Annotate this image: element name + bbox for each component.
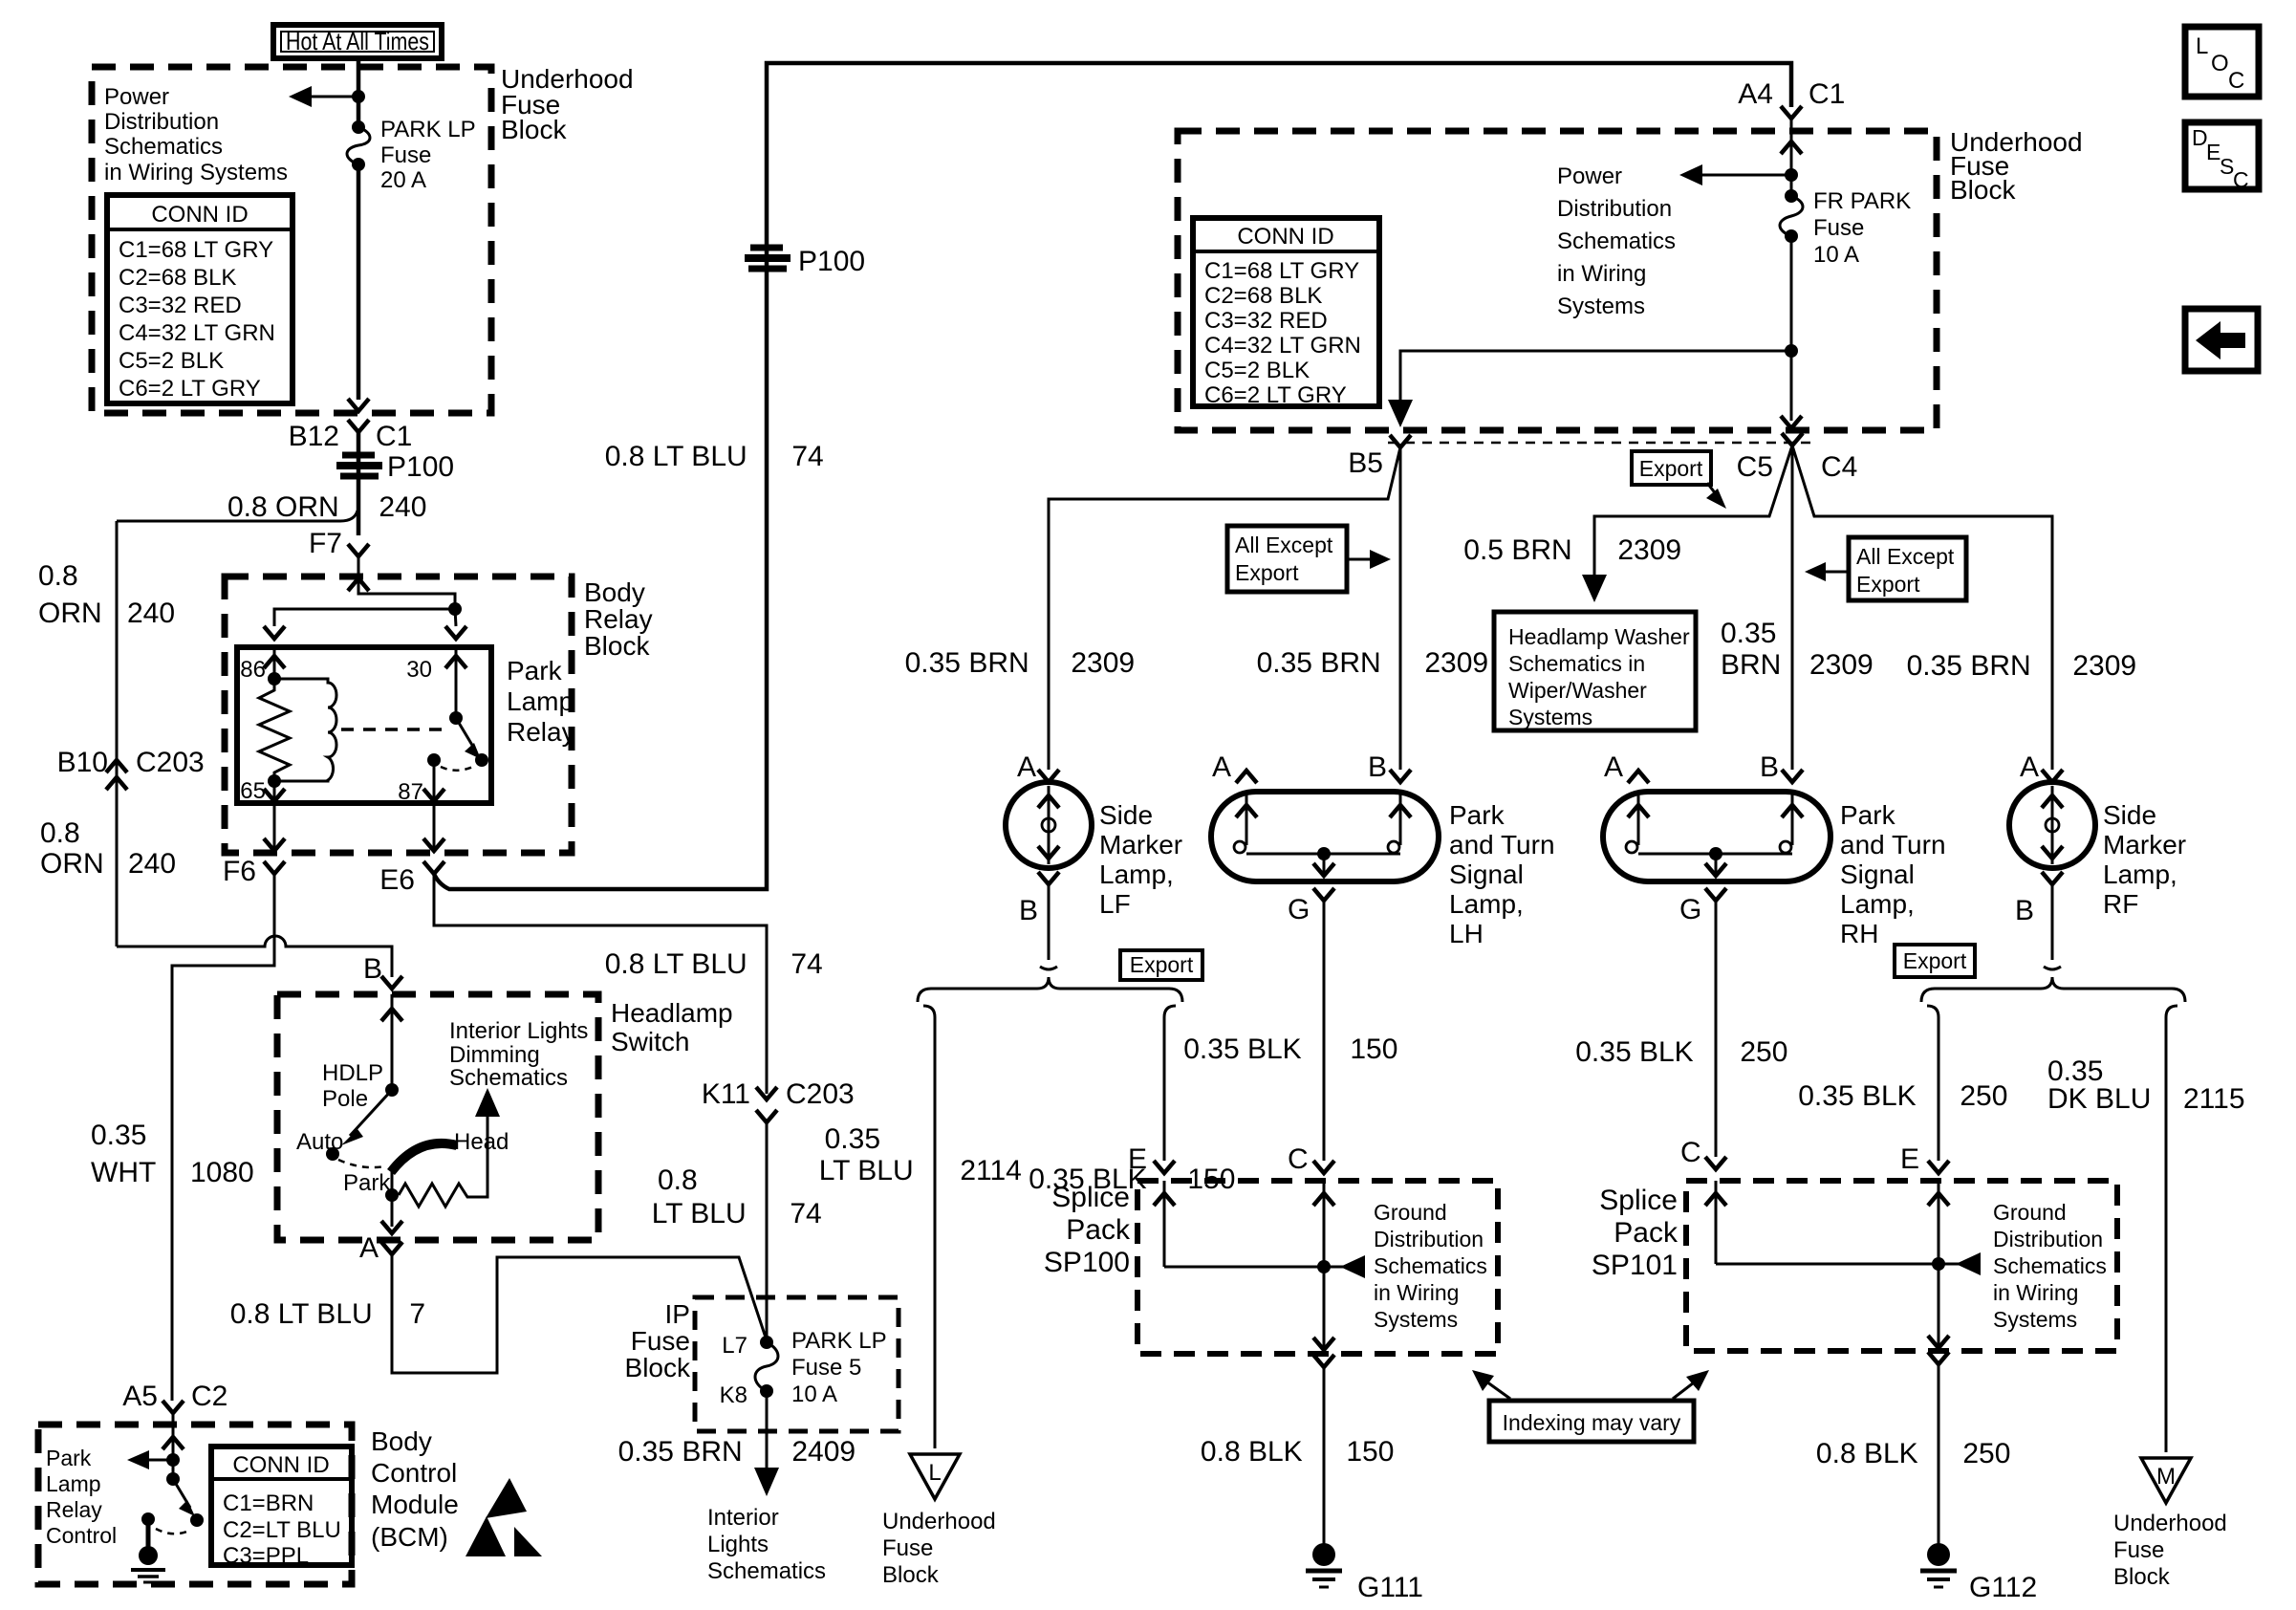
- switch arm to Auto: [350, 1090, 392, 1136]
- svg-text:C1=BRN: C1=BRN: [223, 1490, 314, 1516]
- back arrow box: [2185, 309, 2258, 371]
- svg-text:Schematics: Schematics: [1374, 1253, 1487, 1278]
- ground G112: [1920, 1543, 2037, 1603]
- wire C5/C4 down to RH park lamp B: [1791, 446, 1794, 770]
- SP101 internal bus: [1715, 1181, 1718, 1264]
- wire A to IP fuse block: [392, 1254, 767, 1373]
- brace export split (RF): [1921, 977, 2185, 1002]
- svg-text:Lamp,: Lamp,: [1840, 889, 1915, 919]
- svg-text:G112: G112: [1969, 1572, 2037, 1603]
- wire SP101 to G112: [1928, 1352, 1949, 1364]
- svg-text:74: 74: [782, 1198, 822, 1229]
- SP100 internal bus: [1163, 1181, 1166, 1267]
- svg-text:2309: 2309: [1417, 647, 1488, 679]
- svg-text:0.8 BLK: 0.8 BLK: [1201, 1436, 1310, 1468]
- svg-text:O: O: [2211, 51, 2229, 76]
- lamp Park and Turn Signal Lamp RH: [1603, 751, 1946, 948]
- relay resistor: [259, 679, 290, 781]
- wire fuse output down to box edge: [357, 164, 361, 400]
- CONN ID table (Underhood right): [1193, 218, 1379, 408]
- svg-text:Pack: Pack: [1614, 1217, 1679, 1249]
- wire B5 branch to LF side marker: [1049, 447, 1400, 770]
- DESC box: [2185, 122, 2259, 192]
- svg-text:0.8: 0.8: [38, 560, 78, 592]
- grommet P100 (middle): [745, 246, 865, 277]
- wire RF B down to export brace: [2051, 884, 2054, 960]
- svg-text:in Wiring: in Wiring: [1993, 1280, 2078, 1305]
- svg-text:G: G: [1288, 894, 1310, 925]
- svg-text:G111: G111: [1357, 1572, 1423, 1603]
- svg-text:Ground: Ground: [1993, 1200, 2067, 1225]
- svg-text:E: E: [1900, 1143, 1919, 1175]
- svg-text:B5: B5: [1348, 447, 1383, 479]
- relay Park Lamp Relay box: [237, 647, 491, 803]
- svg-text:Interior: Interior: [707, 1505, 779, 1531]
- svg-text:Control: Control: [371, 1458, 457, 1488]
- node Park contact: [385, 1188, 399, 1202]
- wire to relay pins 86 and 30: [358, 593, 455, 609]
- dashed arc BCM switch: [156, 1529, 191, 1534]
- svg-text:Indexing may vary: Indexing may vary: [1503, 1410, 1681, 1435]
- svg-text:A: A: [1604, 751, 1623, 783]
- svg-text:Distribution: Distribution: [1374, 1227, 1484, 1251]
- triangle ref L (Underhood Fuse Block): [882, 1454, 996, 1588]
- svg-text:C3=32 RED: C3=32 RED: [119, 293, 242, 318]
- svg-text:86: 86: [240, 657, 266, 683]
- svg-text:ORN: ORN: [40, 848, 104, 880]
- svg-text:Export: Export: [1639, 456, 1703, 481]
- ground G111: [1306, 1543, 1423, 1603]
- wire SP100 to G111: [1313, 1355, 1334, 1367]
- Export box (LF): [1120, 950, 1202, 980]
- wire LH G down to SP100 C: [1323, 901, 1326, 1161]
- svg-text:Body: Body: [584, 577, 645, 607]
- svg-text:Ground: Ground: [1374, 1200, 1447, 1225]
- svg-text:in Wiring: in Wiring: [1557, 261, 1646, 287]
- svg-text:0.35 BLK: 0.35 BLK: [1575, 1036, 1701, 1068]
- svg-text:C6=2 LT GRY: C6=2 LT GRY: [1204, 382, 1347, 408]
- svg-text:Lamp: Lamp: [46, 1471, 101, 1496]
- svg-text:ORN: ORN: [38, 598, 102, 629]
- svg-text:All Except: All Except: [1856, 544, 1955, 569]
- E6 wire up through P100 to A4: [434, 63, 1791, 889]
- svg-text:Distribution: Distribution: [1993, 1227, 2103, 1251]
- relay coil: [274, 679, 336, 781]
- wire A4 into fuse block: [1790, 119, 1793, 196]
- svg-text:240: 240: [127, 598, 175, 629]
- svg-text:2309: 2309: [2065, 650, 2136, 682]
- svg-text:240: 240: [128, 848, 176, 880]
- svg-text:0.8: 0.8: [40, 817, 80, 849]
- Body Relay Block dashed box: [225, 577, 572, 853]
- svg-text:C1: C1: [1809, 78, 1845, 110]
- wire B into switch: [391, 994, 394, 1090]
- svg-text:Distribution: Distribution: [1557, 196, 1672, 222]
- svg-text:10 A: 10 A: [1813, 242, 1859, 268]
- svg-text:0.35 BLK: 0.35 BLK: [1798, 1080, 1924, 1112]
- wire C4 branch to RF side marker: [1792, 446, 2052, 770]
- Headlamp Switch dashed box: [277, 994, 598, 1240]
- svg-text:Relay: Relay: [507, 717, 575, 747]
- svg-text:C: C: [2233, 167, 2249, 192]
- svg-text:Lamp,: Lamp,: [1099, 859, 1174, 889]
- svg-text:0.8 BLK: 0.8 BLK: [1816, 1438, 1926, 1469]
- svg-text:A4: A4: [1738, 78, 1773, 110]
- Splice Pack SP101 dashed box: [1686, 1181, 2117, 1351]
- relay switch arm: [456, 718, 476, 751]
- wire F7 into Body Relay Block: [357, 556, 360, 593]
- svg-text:C5: C5: [1737, 451, 1773, 483]
- svg-text:Block: Block: [501, 115, 567, 144]
- svg-text:Side: Side: [2103, 800, 2156, 830]
- svg-text:C2=LT BLU: C2=LT BLU: [223, 1517, 341, 1543]
- svg-text:Schematics: Schematics: [449, 1065, 568, 1091]
- wire to L ref (2114): [923, 1006, 935, 1448]
- svg-text:2114: 2114: [952, 1155, 1022, 1186]
- svg-text:C4: C4: [1821, 451, 1857, 483]
- svg-text:B: B: [1019, 895, 1038, 926]
- svg-text:C: C: [1680, 1137, 1701, 1168]
- svg-text:Park: Park: [343, 1170, 391, 1196]
- svg-text:0.8 LT BLU: 0.8 LT BLU: [605, 948, 755, 980]
- wire from F7 branch down left side: [116, 521, 119, 946]
- switch wiper thick arc: [391, 1143, 457, 1172]
- svg-text:CONN ID: CONN ID: [232, 1452, 329, 1478]
- svg-text:Fuse: Fuse: [2113, 1537, 2164, 1563]
- svg-text:Splice: Splice: [1599, 1185, 1678, 1216]
- svg-text:Systems: Systems: [1993, 1307, 2077, 1332]
- svg-text:SP101: SP101: [1592, 1250, 1678, 1281]
- svg-text:2409: 2409: [784, 1436, 856, 1468]
- svg-text:Headlamp Washer: Headlamp Washer: [1508, 624, 1690, 649]
- svg-text:in Wiring: in Wiring: [1374, 1280, 1459, 1305]
- wire from Hot At All Times into fuse block: [357, 58, 361, 125]
- wire arrow to Power Distribution reference: [294, 96, 358, 98]
- svg-text:Interior Lights: Interior Lights: [449, 1018, 588, 1044]
- Hot At All Times box: [273, 25, 442, 58]
- svg-text:L: L: [928, 1460, 941, 1486]
- svg-text:Block: Block: [1950, 175, 2016, 205]
- svg-text:Relay: Relay: [584, 604, 653, 634]
- wire B5 down to LH park lamp B: [1399, 447, 1402, 770]
- svg-text:0.8 LT BLU: 0.8 LT BLU: [605, 441, 755, 472]
- svg-text:20 A: 20 A: [380, 167, 426, 193]
- node HDLP pole: [385, 1083, 399, 1097]
- node FR PARK feed junction: [1785, 168, 1798, 182]
- Export box (RF): [1895, 945, 1975, 977]
- svg-text:0.35 BRN: 0.35 BRN: [905, 647, 1037, 679]
- svg-text:Export: Export: [1235, 560, 1299, 585]
- svg-text:Schematics: Schematics: [707, 1558, 826, 1584]
- svg-text:C203: C203: [786, 1078, 855, 1110]
- svg-text:Head: Head: [454, 1129, 509, 1155]
- connector line between B5 and C4: [1388, 442, 1816, 445]
- svg-text:Park: Park: [1840, 800, 1896, 830]
- svg-text:C5=2 BLK: C5=2 BLK: [119, 348, 224, 374]
- dashed arc to Park position: [338, 1160, 385, 1167]
- svg-text:Park: Park: [46, 1446, 92, 1470]
- svg-text:Export: Export: [1856, 572, 1920, 597]
- svg-text:250: 250: [1955, 1438, 2010, 1469]
- svg-text:Hot At All Times: Hot At All Times: [286, 27, 429, 55]
- svg-text:Systems: Systems: [1374, 1307, 1458, 1332]
- svg-text:M: M: [2156, 1464, 2176, 1490]
- svg-text:LT BLU: LT BLU: [652, 1198, 754, 1229]
- svg-text:2309: 2309: [1063, 647, 1135, 679]
- ESD symbol: [486, 1478, 527, 1518]
- Splice Pack SP100 dashed box: [1137, 1181, 1498, 1354]
- connector B10 / C203: [106, 760, 127, 772]
- svg-text:B: B: [363, 953, 382, 985]
- Indexing may vary box: [1472, 1370, 1709, 1442]
- Headlamp Washer Schematics box: [1494, 612, 1696, 730]
- IP Fuse Block dashed box: [695, 1297, 899, 1431]
- svg-text:Power: Power: [104, 84, 169, 110]
- Export box (top): [1632, 451, 1726, 509]
- svg-text:C2=68 BLK: C2=68 BLK: [1204, 283, 1322, 309]
- wire to Interior Lights Dimming reference arrow: [470, 1101, 487, 1197]
- wire LF B down to export brace: [1048, 884, 1051, 960]
- node Auto contact: [326, 1147, 339, 1161]
- svg-text:0.8 ORN: 0.8 ORN: [227, 491, 347, 523]
- svg-text:Underhood: Underhood: [2113, 1511, 2227, 1536]
- svg-text:Lamp: Lamp: [507, 686, 574, 716]
- svg-text:C1: C1: [376, 421, 412, 452]
- svg-text:(BCM): (BCM): [371, 1522, 448, 1552]
- E6 wire down to K11: [434, 874, 767, 1094]
- svg-text:P100: P100: [387, 451, 454, 483]
- svg-text:RH: RH: [1840, 919, 1878, 948]
- svg-text:Marker: Marker: [1099, 830, 1182, 859]
- svg-text:PARK LP: PARK LP: [380, 117, 476, 142]
- svg-text:Signal: Signal: [1840, 859, 1915, 889]
- svg-text:Fuse 5: Fuse 5: [791, 1355, 861, 1381]
- svg-text:B: B: [1760, 751, 1779, 783]
- svg-text:Fuse: Fuse: [380, 142, 431, 168]
- svg-text:Export: Export: [1903, 948, 1967, 973]
- svg-text:Splice: Splice: [1051, 1182, 1130, 1213]
- triangle ref M (Underhood Fuse Block): [2113, 1458, 2227, 1590]
- svg-text:C6=2 LT GRY: C6=2 LT GRY: [119, 376, 261, 402]
- svg-text:LH: LH: [1449, 919, 1484, 948]
- svg-text:All Except: All Except: [1235, 533, 1333, 557]
- svg-text:Block: Block: [625, 1353, 691, 1382]
- brace export split (LF): [918, 977, 1182, 1002]
- svg-text:Underhood: Underhood: [882, 1509, 996, 1534]
- svg-text:LT BLU: LT BLU: [819, 1155, 921, 1186]
- svg-text:250: 250: [1952, 1080, 2007, 1112]
- node park lamp relay control junction: [166, 1453, 180, 1467]
- fuse PARK LP Fuse 5 10 A: [760, 1336, 773, 1349]
- svg-text:2115: 2115: [2183, 1083, 2245, 1115]
- svg-text:Schematics: Schematics: [1557, 228, 1676, 254]
- svg-text:Power: Power: [1557, 163, 1622, 189]
- svg-text:65: 65: [240, 778, 266, 804]
- Underhood Fuse Block (left) dashed box: [92, 67, 491, 413]
- svg-text:Distribution: Distribution: [104, 109, 219, 135]
- wire RH G down to SP101 C: [1715, 901, 1718, 1157]
- svg-text:WHT: WHT: [91, 1157, 156, 1188]
- wire C203 to IP fuse block: [766, 1122, 769, 1340]
- svg-text:0.35: 0.35: [91, 1120, 146, 1151]
- svg-text:Block: Block: [2113, 1564, 2171, 1590]
- wire to SP101 E: [1927, 1006, 1939, 1161]
- wire A out of switch: [381, 1221, 402, 1233]
- wire to SP100 E: [1164, 1006, 1176, 1161]
- svg-text:C5=2 BLK: C5=2 BLK: [1204, 358, 1310, 383]
- connector B12 / C1: [348, 420, 369, 432]
- svg-text:Block: Block: [882, 1562, 940, 1588]
- fuse FR PARK Fuse 10 A: [1785, 189, 1798, 203]
- All Except Export box (left): [1227, 526, 1391, 592]
- svg-text:K11: K11: [702, 1078, 750, 1110]
- svg-text:C4=32 LT GRN: C4=32 LT GRN: [119, 320, 275, 346]
- svg-text:Switch: Switch: [611, 1027, 689, 1056]
- svg-text:PARK LP: PARK LP: [791, 1328, 887, 1354]
- svg-text:C4=32 LT GRN: C4=32 LT GRN: [1204, 333, 1361, 359]
- svg-text:LF: LF: [1099, 889, 1131, 919]
- svg-text:F6: F6: [223, 856, 256, 887]
- wire to M ref (2115): [2166, 1006, 2177, 1452]
- svg-text:C3=32 RED: C3=32 RED: [1204, 308, 1328, 334]
- svg-text:C2=68 BLK: C2=68 BLK: [119, 265, 236, 291]
- svg-text:Systems: Systems: [1508, 705, 1592, 729]
- svg-text:Relay: Relay: [46, 1497, 102, 1522]
- svg-text:Headlamp: Headlamp: [611, 998, 733, 1028]
- svg-text:in Wiring Systems: in Wiring Systems: [104, 160, 288, 185]
- svg-text:CONN ID: CONN ID: [1237, 224, 1333, 250]
- svg-text:RF: RF: [2103, 889, 2138, 919]
- svg-text:Fuse: Fuse: [631, 1326, 690, 1356]
- svg-text:C2: C2: [191, 1381, 227, 1412]
- svg-text:K8: K8: [720, 1382, 747, 1408]
- svg-text:L7: L7: [722, 1333, 747, 1359]
- svg-text:A: A: [2020, 751, 2039, 783]
- All Except Export box (right): [1805, 537, 1966, 600]
- lamp Side Marker Lamp RF: [2009, 751, 2186, 926]
- svg-text:30: 30: [406, 657, 432, 683]
- wire C5 branch to 0.5 BRN drop: [1594, 446, 1792, 585]
- svg-text:Fuse: Fuse: [1813, 215, 1864, 241]
- svg-text:Signal: Signal: [1449, 859, 1524, 889]
- svg-text:Lights: Lights: [707, 1532, 769, 1557]
- svg-text:B: B: [1368, 751, 1387, 783]
- node junction at top of PARK LP fuse: [352, 90, 365, 103]
- wire F6 to BCM: [172, 874, 274, 1401]
- svg-text:A5: A5: [122, 1381, 158, 1412]
- svg-text:Systems: Systems: [1557, 294, 1645, 319]
- svg-text:C3=PPL: C3=PPL: [223, 1543, 309, 1569]
- svg-text:7: 7: [401, 1298, 425, 1330]
- svg-text:E6: E6: [379, 864, 415, 896]
- relay actuation dashed line: [341, 728, 447, 731]
- svg-text:F7: F7: [309, 528, 342, 559]
- svg-text:FR PARK: FR PARK: [1813, 188, 1911, 214]
- wire branch at F7 going left: [117, 511, 357, 521]
- svg-text:Pack: Pack: [1066, 1214, 1131, 1246]
- svg-text:Lamp,: Lamp,: [2103, 859, 2177, 889]
- svg-text:C: C: [1288, 1143, 1309, 1175]
- svg-text:Export: Export: [1130, 952, 1194, 977]
- relay outputs exiting Body Relay Block: [273, 801, 276, 851]
- svg-text:0.35: 0.35: [1721, 618, 1776, 649]
- svg-text:Module: Module: [371, 1490, 459, 1519]
- CONN ID table (BCM): [211, 1447, 352, 1569]
- svg-text:B12: B12: [289, 421, 339, 452]
- svg-text:C: C: [2228, 68, 2244, 94]
- svg-text:A: A: [1212, 751, 1231, 783]
- svg-text:150: 150: [1338, 1436, 1394, 1468]
- svg-text:CONN ID: CONN ID: [151, 202, 248, 228]
- ground symbol inside BCM: [141, 1512, 155, 1526]
- svg-text:L: L: [2196, 33, 2208, 59]
- svg-text:B10: B10: [57, 747, 108, 778]
- svg-text:150: 150: [1342, 1033, 1397, 1065]
- svg-text:HDLP: HDLP: [322, 1060, 383, 1086]
- Body Control Module dashed box: [38, 1425, 352, 1584]
- svg-text:P100: P100: [798, 246, 865, 277]
- svg-text:1080: 1080: [190, 1157, 254, 1188]
- wire to Interior Lights Schematics: [766, 1391, 769, 1480]
- svg-text:Side: Side: [1099, 800, 1153, 830]
- svg-text:A: A: [359, 1232, 379, 1264]
- svg-text:74: 74: [783, 948, 823, 980]
- svg-text:240: 240: [371, 491, 426, 523]
- svg-text:Control: Control: [46, 1523, 117, 1548]
- pin 87: [427, 753, 441, 767]
- wire fuse to B5 branch: [1790, 236, 1793, 421]
- svg-text:0.5 BRN: 0.5 BRN: [1463, 534, 1580, 566]
- pin 30 wire and switch: [455, 647, 458, 718]
- svg-text:0.35 BLK: 0.35 BLK: [1183, 1033, 1310, 1065]
- svg-text:Marker: Marker: [2103, 830, 2186, 859]
- svg-text:A: A: [1017, 751, 1036, 783]
- pin 86: [273, 647, 276, 679]
- svg-text:Block: Block: [584, 631, 650, 661]
- svg-text:10 A: 10 A: [791, 1382, 837, 1407]
- svg-text:B: B: [2015, 895, 2034, 926]
- svg-text:Dimming: Dimming: [449, 1042, 540, 1068]
- wire to P100: [357, 432, 361, 535]
- svg-text:0.8 LT BLU: 0.8 LT BLU: [230, 1298, 380, 1330]
- svg-text:Park: Park: [1449, 800, 1505, 830]
- svg-text:250: 250: [1732, 1036, 1787, 1068]
- svg-text:0.35 BRN: 0.35 BRN: [618, 1436, 750, 1468]
- svg-text:Park: Park: [507, 656, 563, 685]
- Underhood Fuse Block (right) dashed box: [1178, 131, 1937, 430]
- svg-text:Fuse: Fuse: [882, 1535, 933, 1561]
- CONN ID table (Underhood left): [107, 195, 292, 403]
- svg-text:Lamp,: Lamp,: [1449, 889, 1524, 919]
- svg-text:0.35 BRN: 0.35 BRN: [1257, 647, 1389, 679]
- svg-text:and Turn: and Turn: [1840, 830, 1946, 859]
- svg-text:74: 74: [784, 441, 824, 472]
- svg-text:Schematics in: Schematics in: [1508, 651, 1645, 676]
- svg-text:C1=68 LT GRY: C1=68 LT GRY: [119, 237, 273, 263]
- svg-text:87: 87: [398, 779, 423, 805]
- wire across to headlamp switch B with hop: [117, 936, 392, 977]
- LOC box: [2185, 27, 2259, 97]
- lamp Park and Turn Signal Lamp LH: [1211, 751, 1555, 948]
- svg-text:0.35 BRN: 0.35 BRN: [1907, 650, 2039, 682]
- connector K11 / C203: [756, 1087, 777, 1099]
- svg-text:Wiper/Washer: Wiper/Washer: [1508, 678, 1647, 703]
- svg-text:0.8: 0.8: [658, 1164, 698, 1196]
- lamp Side Marker Lamp LF: [1006, 751, 1182, 926]
- svg-text:Schematics: Schematics: [104, 134, 223, 160]
- svg-text:C1=68 LT GRY: C1=68 LT GRY: [1204, 258, 1359, 284]
- wire arrow to Power Distribution reference (right): [1685, 174, 1791, 177]
